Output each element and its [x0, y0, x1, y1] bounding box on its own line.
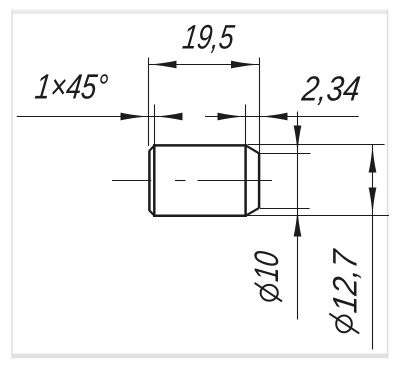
drawing frame right border [387, 10, 388, 359]
dimension line 2,34 with outside arrows [205, 116, 359, 118]
svg-text:19,5: 19,5 [180, 18, 237, 56]
extension line: diameter 10 bottom [260, 208, 310, 210]
centerline short dash [175, 180, 186, 182]
arrowhead 19,5 right [231, 61, 259, 69]
arrowhead 1x45 right (tip at chamfer ext, pointing left) [155, 113, 183, 121]
svg-text:1×45°: 1×45° [33, 68, 110, 107]
arrowhead 2,34 left (tip at right chamfer ext, pointing right) [218, 113, 246, 121]
diameter symbol of dia12,7 label [329, 314, 359, 334]
part: top-right chamfer diagonal [246, 145, 259, 153]
arrowhead 2,34 right (tip at right face ext, pointing left) [260, 113, 288, 121]
extension line: right end face (19,5 right / 2,34 right) [259, 58, 261, 154]
svg-text:12,7: 12,7 [327, 246, 365, 315]
extension line: left end face (19,5 left / 1x45 left) [148, 58, 150, 147]
part outline: right end face [258, 153, 261, 208]
extension line: diameter 12,7 top [248, 144, 385, 146]
centerline segment left [112, 180, 151, 182]
centerline segment right [198, 180, 273, 182]
part outline: top edge [153, 144, 247, 147]
svg-text:2,34: 2,34 [299, 69, 362, 108]
part: top-left chamfer diagonal [149, 145, 154, 150]
part: bottom-right chamfer diagonal [246, 208, 259, 216]
dimension line 19,5 [149, 64, 260, 66]
arrowhead dia10 bottom (pointing up, tip at bottom ext) [294, 209, 302, 237]
part: bottom-left chamfer diagonal [149, 211, 154, 216]
dimension line diameter 12,7 (vertical) [372, 145, 374, 350]
drawing frame top border [12, 10, 388, 15]
arrowhead dia10 top (pointing down, tip at top ext) [294, 126, 302, 154]
extension line: diameter 12,7 bottom [248, 215, 390, 217]
extension line: diameter 10 top [260, 153, 311, 155]
diameter symbol of dia10 label [255, 283, 282, 302]
part: right chamfer edge line [244, 144, 247, 217]
part outline: left end face [148, 150, 151, 211]
extension line: left chamfer edge (1x45 right) [154, 105, 156, 146]
dimension line diameter 10 (vertical) [297, 112, 299, 320]
drawing frame left border [11, 10, 12, 359]
arrowhead dia12,7 top (pointing up, tip at top ext) [369, 145, 377, 173]
arrowhead 19,5 left [149, 61, 177, 69]
part outline: bottom edge [153, 214, 247, 217]
part: left chamfer edge line [153, 144, 156, 217]
svg-text:10: 10 [248, 249, 286, 283]
extension line: right chamfer edge (2,34 left) [245, 105, 247, 146]
leader / dimension line 1x45 with outside arrows [17, 116, 183, 118]
arrowhead 1x45 left (tip at left face ext) [121, 113, 149, 121]
drawing frame bottom border [12, 354, 389, 359]
arrowhead dia12,7 bottom (pointing down, tip at bottom ext) [369, 188, 377, 216]
